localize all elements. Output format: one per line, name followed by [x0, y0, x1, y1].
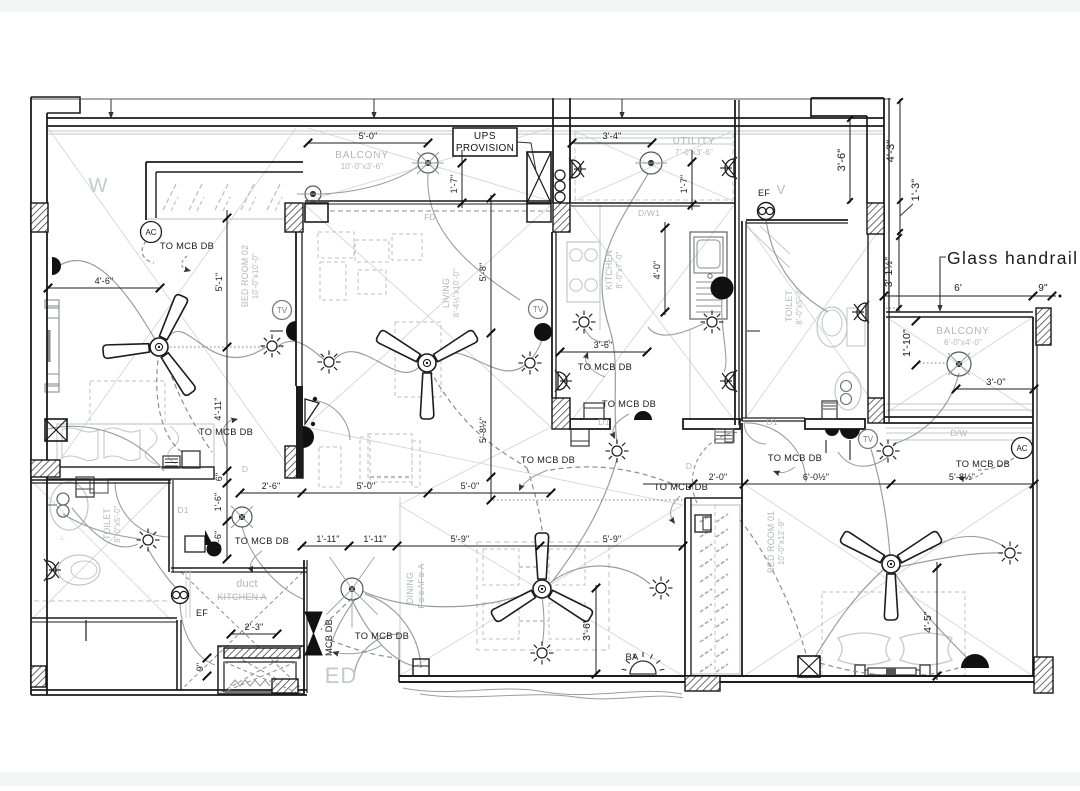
svg-text:1'-10": 1'-10"	[901, 329, 913, 357]
svg-text:1'-11": 1'-11"	[316, 534, 339, 544]
svg-text:2'-6": 2'-6"	[262, 481, 281, 491]
svg-text:10'-0"x12'-9": 10'-0"x12'-9"	[777, 519, 786, 565]
svg-text:9": 9"	[195, 663, 205, 672]
svg-text:BA: BA	[625, 652, 639, 663]
svg-text:5'-8": 5'-8"	[478, 263, 488, 282]
svg-text:W: W	[88, 175, 107, 197]
svg-text:4'-0": 4'-0"	[652, 261, 662, 280]
svg-text:8'-0"x5'-0": 8'-0"x5'-0"	[113, 505, 122, 542]
svg-text:DINING: DINING	[405, 572, 415, 604]
svg-text:5'-8½": 5'-8½"	[478, 417, 488, 443]
svg-text:ED: ED	[325, 663, 358, 688]
svg-text:4'-5": 4'-5"	[922, 611, 934, 633]
svg-text:5'-9": 5'-9"	[603, 534, 622, 544]
svg-text:D: D	[686, 461, 692, 471]
svg-text:EF: EF	[758, 188, 770, 198]
svg-text:KITCHEN A: KITCHEN A	[217, 592, 266, 602]
svg-text:D1: D1	[766, 417, 777, 427]
svg-text:8'-4½"x10'-0": 8'-4½"x10'-0"	[452, 269, 461, 317]
svg-text:1'-7": 1'-7"	[449, 175, 459, 194]
svg-text:1'-7": 1'-7"	[679, 175, 689, 194]
svg-text:3'-4": 3'-4"	[603, 131, 622, 141]
svg-text:♨: ♨	[59, 534, 65, 542]
svg-text:TV: TV	[863, 435, 874, 444]
svg-text:BED ROOM 01: BED ROOM 01	[766, 511, 776, 573]
svg-text:TO MCB DB: TO MCB DB	[654, 482, 708, 492]
svg-text:F⊕⊕AF⊕ A: F⊕⊕AF⊕ A	[417, 563, 426, 608]
svg-text:D1: D1	[177, 505, 188, 515]
svg-text:7'-0"x3'-6": 7'-0"x3'-6"	[675, 148, 713, 157]
svg-text:6": 6"	[214, 473, 224, 482]
svg-text:AC: AC	[1016, 444, 1027, 453]
svg-text:TO MCB DB: TO MCB DB	[521, 455, 575, 465]
svg-text:4'-3": 4'-3"	[885, 140, 897, 163]
svg-text:3'-6": 3'-6"	[581, 619, 593, 641]
svg-text:1'-6": 1'-6"	[213, 493, 223, 512]
svg-text:5'-0": 5'-0"	[357, 481, 376, 491]
svg-text:TOILET: TOILET	[102, 508, 112, 540]
svg-text:4'-11": 4'-11"	[213, 397, 223, 420]
svg-text:3'-1½": 3'-1½"	[883, 257, 895, 288]
svg-text:10'-0"x10'-0": 10'-0"x10'-0"	[251, 253, 260, 299]
svg-text:6'-0½": 6'-0½"	[803, 472, 829, 482]
svg-text:5'-0": 5'-0"	[359, 131, 378, 141]
svg-text:1'-11": 1'-11"	[363, 534, 386, 544]
svg-text:5'-8½": 5'-8½"	[949, 472, 975, 482]
svg-text:TV: TV	[533, 305, 544, 314]
svg-text:TO MCB DB: TO MCB DB	[956, 459, 1010, 469]
svg-text:UPS: UPS	[474, 131, 496, 142]
svg-text:V: V	[777, 182, 786, 197]
svg-text:duct: duct	[236, 578, 258, 590]
svg-text:6'-0"x4'-0": 6'-0"x4'-0"	[944, 338, 982, 347]
svg-text:3'-0": 3'-0"	[986, 377, 1006, 388]
svg-text:2'-3": 2'-3"	[245, 622, 264, 632]
svg-text:1'-3": 1'-3"	[910, 179, 922, 202]
svg-text:6': 6'	[954, 283, 962, 294]
svg-text:4'-6": 4'-6"	[95, 276, 114, 286]
svg-text:5'-0": 5'-0"	[461, 481, 480, 491]
svg-text:8'-0"x7'-0": 8'-0"x7'-0"	[615, 251, 624, 288]
svg-text:2'-0": 2'-0"	[709, 472, 728, 482]
svg-text:10'-0"x3'-6": 10'-0"x3'-6"	[341, 162, 384, 171]
svg-text:TO MCB DB: TO MCB DB	[160, 241, 214, 251]
svg-text:TO MCB DB: TO MCB DB	[602, 399, 656, 409]
svg-text:5'-1": 5'-1"	[214, 273, 224, 292]
svg-text:1'-6": 1'-6"	[213, 531, 223, 550]
svg-text:3'-6": 3'-6"	[836, 149, 848, 172]
svg-text:Glass handrail: Glass handrail	[947, 248, 1078, 268]
svg-text:9": 9"	[1038, 283, 1048, 294]
svg-text:PROVISION: PROVISION	[456, 143, 514, 154]
svg-text:TO MCB DB: TO MCB DB	[199, 427, 253, 437]
svg-text:LIVING: LIVING	[441, 278, 451, 308]
svg-text:BED ROOM 02: BED ROOM 02	[240, 245, 250, 307]
svg-text:TOILET: TOILET	[784, 290, 794, 322]
svg-text:D1: D1	[598, 417, 609, 427]
svg-text:BALCONY: BALCONY	[936, 326, 989, 337]
svg-text:UTILITY: UTILITY	[673, 136, 716, 147]
svg-text:TV: TV	[277, 306, 288, 315]
svg-text:TO MCB DB: TO MCB DB	[355, 631, 409, 641]
svg-text:EF: EF	[196, 608, 208, 618]
svg-text:TO MCB DB: TO MCB DB	[578, 362, 632, 372]
svg-text:3'-6": 3'-6"	[594, 340, 613, 350]
svg-text:TO MCB DB: TO MCB DB	[768, 453, 822, 463]
svg-text:FD: FD	[424, 212, 436, 222]
svg-text:8'-0"x5'-4": 8'-0"x5'-4"	[795, 287, 804, 324]
svg-text:BALCONY: BALCONY	[335, 150, 388, 161]
svg-text:D/W1: D/W1	[638, 208, 660, 218]
svg-text:D: D	[242, 464, 248, 474]
svg-text:TO MCB DB: TO MCB DB	[235, 536, 289, 546]
svg-text:KITCHEN: KITCHEN	[604, 250, 614, 290]
svg-text:5'-9": 5'-9"	[451, 534, 470, 544]
svg-text:D/W: D/W	[950, 428, 967, 438]
svg-text:MCB DB: MCB DB	[324, 619, 334, 656]
svg-text:AC: AC	[145, 228, 156, 237]
